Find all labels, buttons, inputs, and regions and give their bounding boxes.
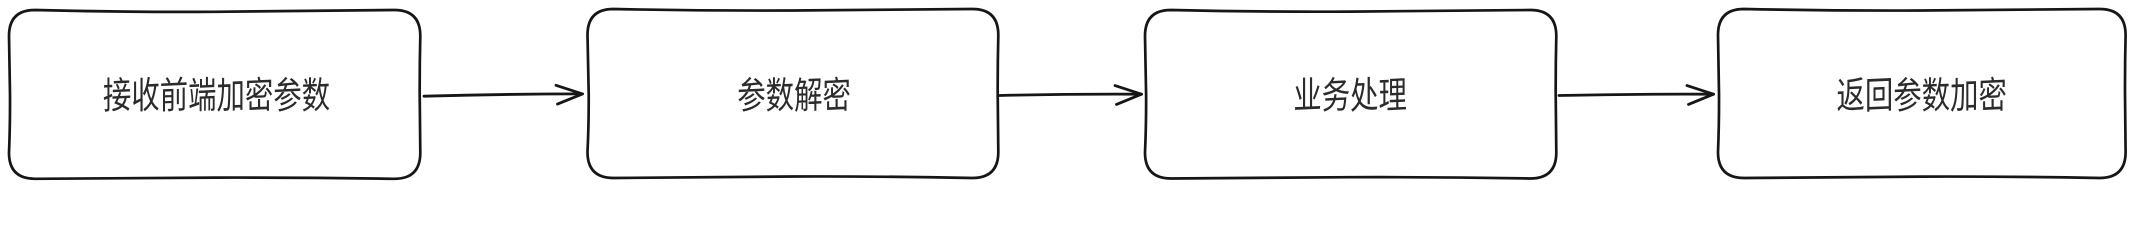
process box 2 border (rounded rectangle) <box>588 9 999 178</box>
process box 1 label: 接收前端加密参数 <box>104 76 330 112</box>
process box 4 border (rounded rectangle) <box>1718 9 2126 178</box>
arrow 2: box2 to box3 <box>1000 86 1142 105</box>
arrow 3: box3 to box4 <box>1559 86 1714 105</box>
process box 3 border (rounded rectangle) <box>1145 10 1556 179</box>
process box 2 label: 参数解密 <box>738 76 849 112</box>
process box 4 label: 返回参数加密 <box>1837 76 2005 112</box>
process box 1 border (rounded rectangle) <box>9 10 420 179</box>
process box 3 label: 业务处理 <box>1295 76 1406 112</box>
arrow 1: box1 to box2 <box>424 85 583 104</box>
